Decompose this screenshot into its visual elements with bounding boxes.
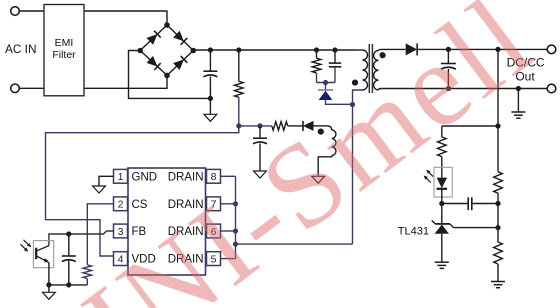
snubber capacitor bbox=[334, 50, 336, 63]
node snubber mid bbox=[323, 80, 328, 85]
node outcap bottom bbox=[446, 86, 451, 91]
ground TL431 bbox=[435, 261, 449, 263]
node ref bbox=[495, 225, 500, 230]
output diode bbox=[406, 43, 418, 55]
opto LED bbox=[437, 178, 448, 188]
dot secondary phase bbox=[380, 52, 386, 58]
wire pin1 gnd bbox=[99, 176, 114, 186]
terminal AC neutral bbox=[11, 84, 20, 93]
wire AC line to EMI bbox=[19, 10, 44, 12]
node outcap top bbox=[446, 47, 451, 52]
bridge diode D4 (bottom to right) bbox=[173, 59, 184, 70]
svg-text:1: 1 bbox=[118, 171, 124, 183]
resistor CS sense bbox=[83, 265, 92, 279]
zener clamp diode bbox=[319, 91, 333, 100]
wire EMI top out bbox=[84, 11, 167, 25]
terminal DC+ bbox=[547, 45, 556, 54]
dot primary phase bbox=[352, 80, 358, 86]
TL431 shunt regulator bbox=[441, 204, 443, 224]
opto transistor bbox=[35, 248, 37, 259]
wire EMI bottom out bbox=[84, 75, 167, 88]
transformer primary winding bbox=[363, 50, 368, 90]
node gnd rail junction bbox=[208, 96, 213, 101]
dot aux phase bbox=[318, 129, 324, 135]
wire aux res to diode bbox=[288, 125, 303, 127]
node drain pin7 bbox=[233, 201, 238, 206]
node VDD cap top bbox=[257, 123, 262, 128]
LED light arrows bbox=[428, 171, 434, 177]
resistor R startup bbox=[238, 50, 240, 81]
transformer secondary winding bbox=[374, 51, 379, 90]
node bridge bottom bbox=[164, 73, 170, 79]
wire VDD-A to cap bbox=[239, 125, 272, 127]
wire secondary bottom rail bbox=[379, 89, 548, 91]
wire VDD loop bbox=[46, 126, 239, 256]
wire FB bbox=[49, 231, 114, 246]
wire out gnd stub bbox=[517, 89, 519, 113]
pin 6 box bbox=[207, 224, 221, 238]
terminal AC line bbox=[11, 7, 20, 16]
optocoupler transistor bracket bbox=[33, 241, 53, 268]
EMI filter block bbox=[44, 5, 84, 96]
wire bridge minus to gnd rail bbox=[129, 51, 211, 99]
pin 3 box bbox=[114, 224, 128, 238]
wire pin8 bbox=[221, 175, 236, 177]
svg-text:GND: GND bbox=[132, 171, 158, 183]
ground aux bbox=[312, 176, 325, 183]
pin 2 box bbox=[114, 197, 128, 211]
wire fb gnd stub bbox=[48, 285, 50, 292]
pin 7 box bbox=[207, 197, 221, 211]
wire primary bottom to drain bbox=[353, 90, 363, 105]
wire aux to gnd bbox=[318, 156, 332, 177]
node drain bus h bbox=[233, 242, 238, 247]
transformer core bbox=[368, 44, 370, 93]
node bridge right bbox=[191, 48, 197, 54]
wire CS bbox=[87, 204, 113, 265]
ground IC bbox=[93, 186, 106, 193]
node FB cap top bbox=[66, 231, 71, 236]
ground FB bbox=[43, 292, 56, 299]
node comp right bbox=[495, 201, 500, 206]
wire comp right bbox=[472, 203, 498, 205]
comp capacitor bbox=[467, 197, 469, 210]
node bridge left bbox=[137, 48, 143, 54]
wire snubber to zener bbox=[325, 83, 327, 91]
node emitter gnd bbox=[46, 282, 51, 287]
wire AC neutral to EMI bbox=[19, 87, 44, 89]
svg-text:Filter: Filter bbox=[52, 49, 76, 61]
svg-text:TL431: TL431 bbox=[398, 225, 429, 237]
svg-text:AC IN: AC IN bbox=[5, 42, 36, 56]
node fb cap bottom bbox=[66, 282, 71, 287]
resistor divider upper bbox=[497, 126, 499, 172]
svg-text:2: 2 bbox=[118, 199, 124, 211]
aux diode bbox=[303, 121, 314, 131]
bridge frame bbox=[140, 25, 193, 75]
VDD capacitor bbox=[259, 126, 261, 138]
wire output + rail bbox=[418, 48, 548, 50]
bridge diode D3 (left to bottom) bbox=[147, 56, 158, 67]
wire pin5 bbox=[221, 258, 236, 260]
aux winding bbox=[328, 126, 332, 130]
terminal DC- bbox=[547, 84, 556, 93]
wire fb gnd rail bbox=[49, 284, 87, 286]
node LED cathode bbox=[439, 201, 444, 206]
node drain primary bbox=[350, 102, 355, 107]
zener clamp bar bbox=[318, 89, 333, 91]
opto light arrows bbox=[24, 240, 30, 246]
wire zener to drain node bbox=[326, 100, 353, 104]
pin 5 box bbox=[207, 252, 221, 266]
aux resistor bbox=[272, 122, 288, 131]
optocoupler LED bracket bbox=[434, 167, 452, 197]
bridge diode D1 (left to top) bbox=[147, 34, 158, 45]
node snubber C top bbox=[332, 47, 337, 52]
bridge diode D2 (top to right) bbox=[173, 31, 184, 42]
wire gnd stub bbox=[209, 98, 211, 114]
wire secondary top bbox=[379, 49, 406, 50]
wire pin6 bbox=[221, 230, 236, 232]
wire pin7 bbox=[221, 203, 236, 205]
node bulk res top bbox=[236, 47, 241, 52]
wire drain bus bbox=[235, 176, 237, 258]
pin 8 box bbox=[207, 169, 221, 183]
node fb top bbox=[495, 123, 500, 128]
pin 1 box bbox=[114, 169, 128, 183]
IC U1 body bbox=[128, 168, 206, 275]
node VDD-A bbox=[236, 123, 241, 128]
ground secondary out bbox=[511, 111, 525, 113]
wire HV+ rail bbox=[193, 49, 354, 51]
svg-text:CS: CS bbox=[132, 199, 148, 211]
wire divider vertical bbox=[497, 49, 499, 126]
ground primary bulk bbox=[204, 114, 217, 121]
wire fb top horizontal bbox=[442, 125, 498, 127]
node divider top bbox=[495, 47, 500, 52]
resistor divider lower bbox=[494, 242, 503, 264]
wire drain horizontal bbox=[236, 243, 353, 245]
wire drain vertical bbox=[352, 105, 354, 245]
node snubber R top bbox=[314, 47, 319, 52]
node bulk cap top bbox=[208, 47, 213, 52]
node bridge top bbox=[164, 22, 170, 28]
output capacitor bbox=[447, 49, 449, 63]
bulk capacitor C1 bbox=[209, 50, 211, 71]
FB capacitor bbox=[68, 234, 70, 256]
svg-text:EMI: EMI bbox=[55, 37, 74, 49]
snubber resistor bbox=[316, 50, 318, 58]
pin 4 box bbox=[114, 252, 128, 266]
node drain pin6 bbox=[233, 228, 238, 233]
ground VDD cap bbox=[254, 171, 267, 178]
ground divider bbox=[491, 281, 505, 283]
wire comp left bbox=[442, 203, 468, 205]
wire TL431 ref bbox=[450, 224, 498, 228]
wire snubber join bbox=[317, 82, 336, 84]
wire aux diode to winding bbox=[314, 125, 328, 127]
node out gnd bbox=[516, 86, 521, 91]
resistor LED feed bbox=[441, 126, 443, 137]
wire opto emitter bbox=[48, 263, 50, 285]
